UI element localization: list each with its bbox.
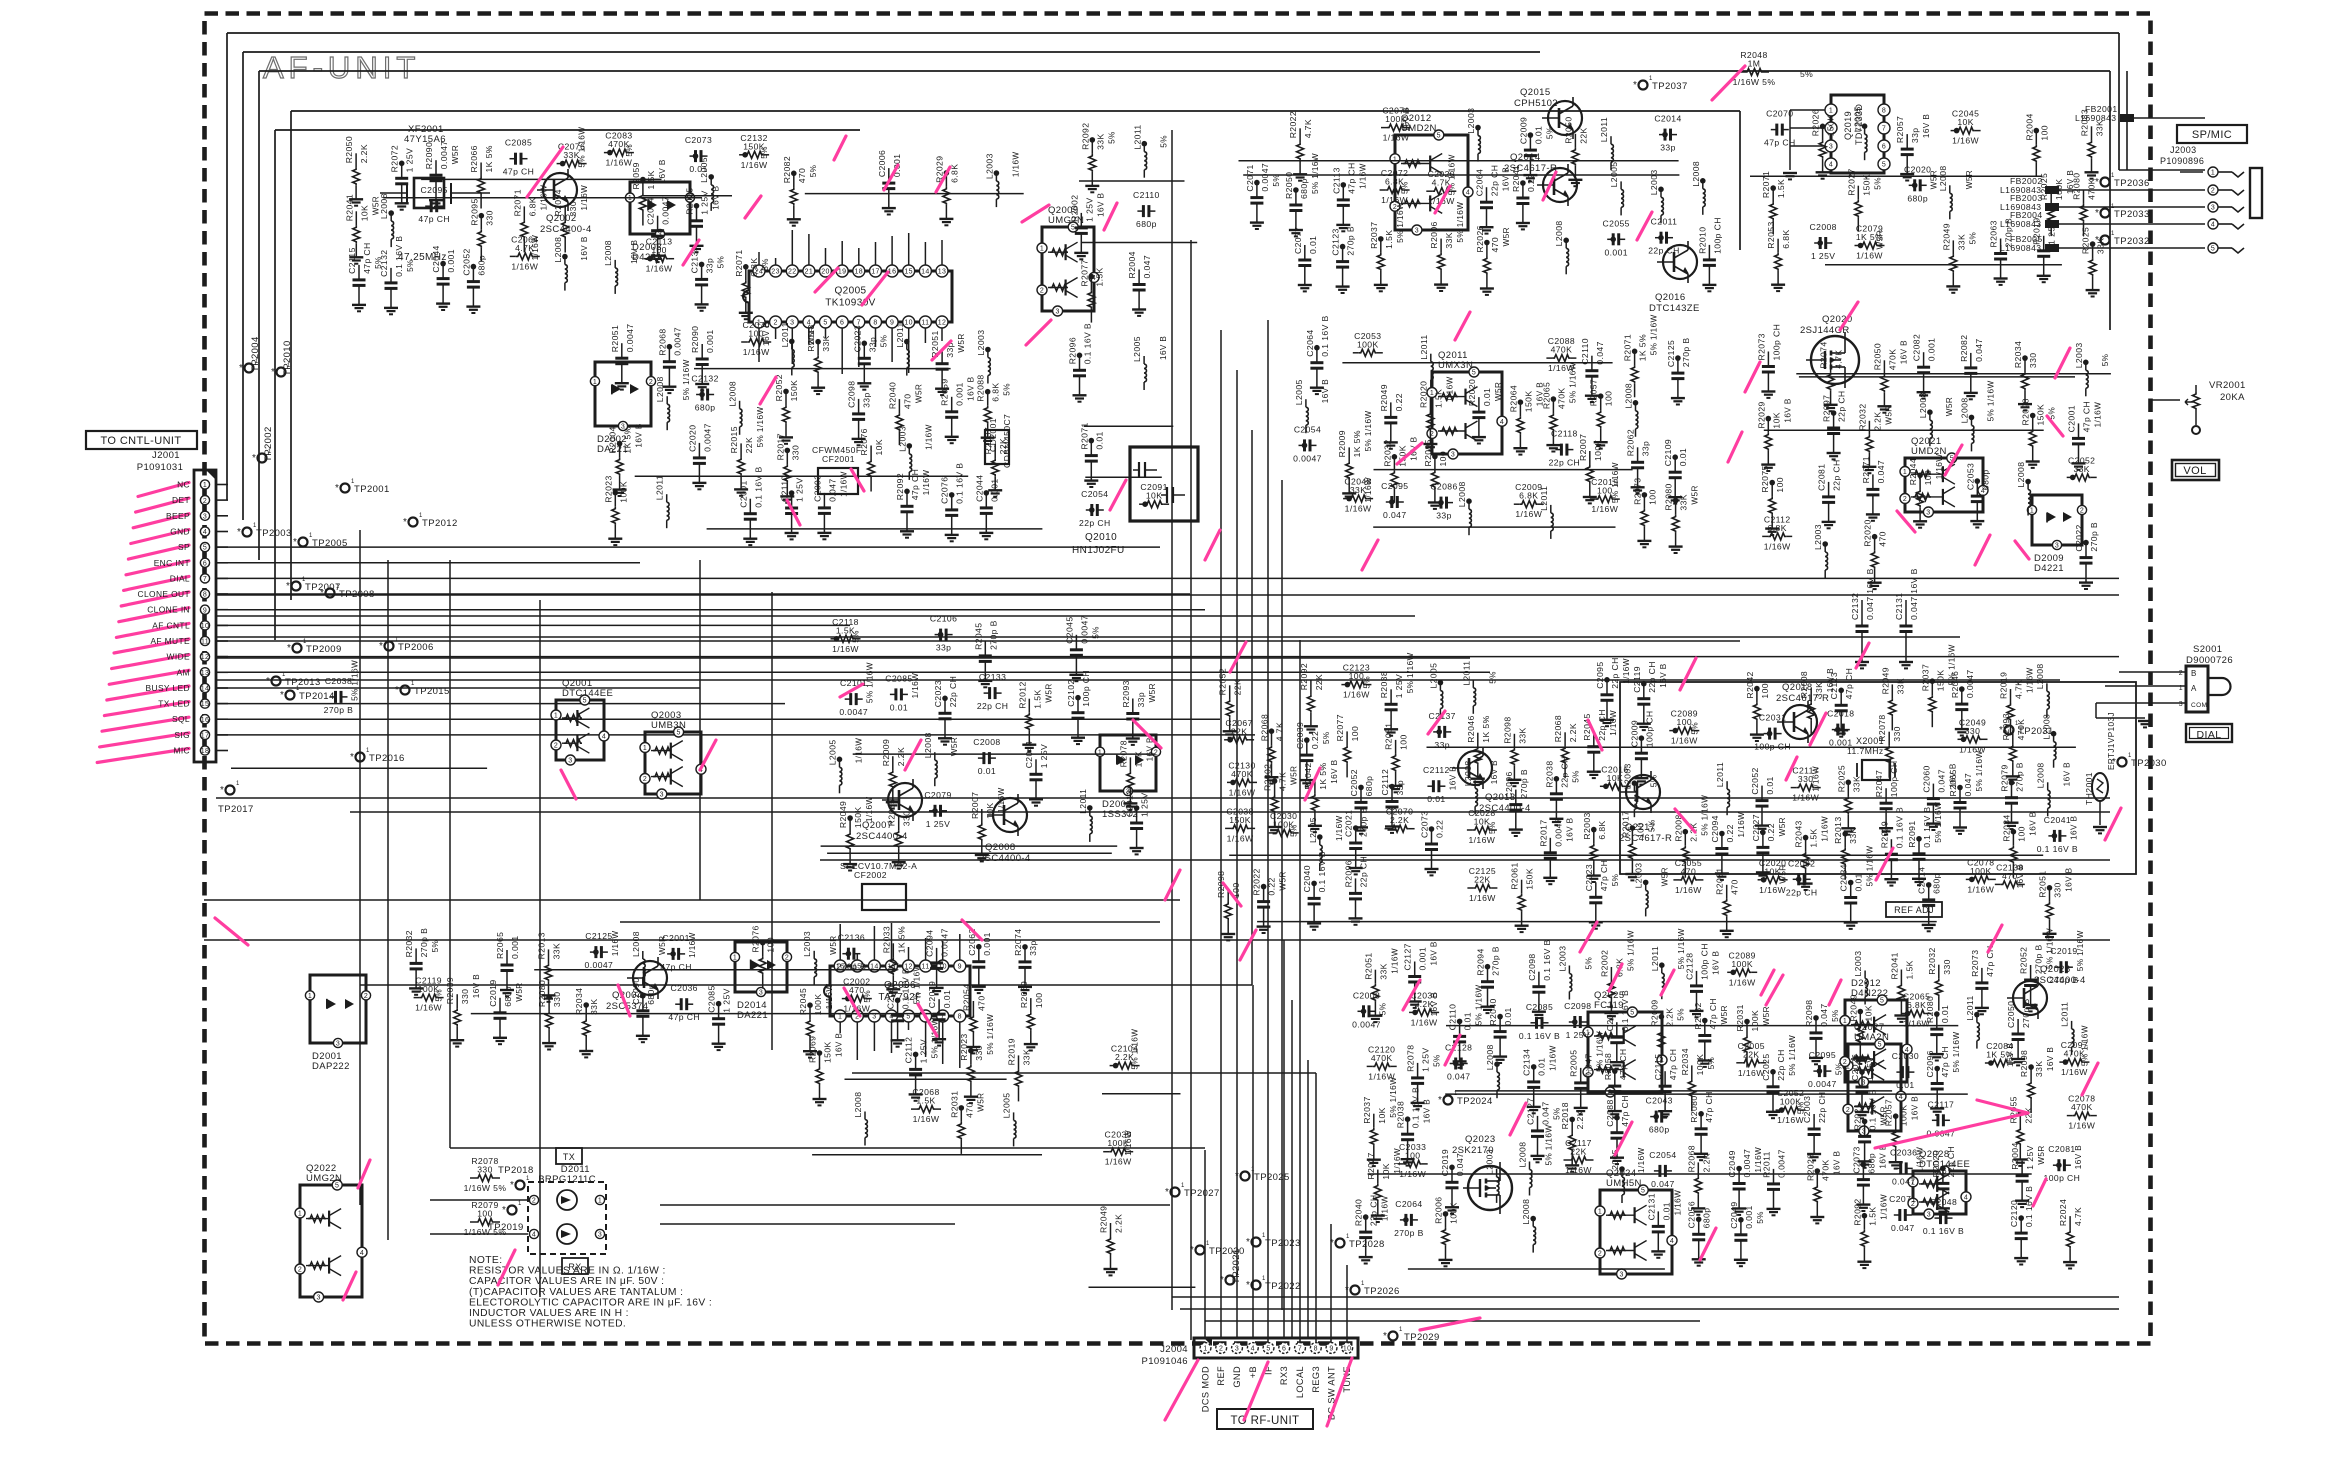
svg-text:0.1 16V B: 0.1 16V B — [1923, 1226, 1964, 1236]
svg-text:8: 8 — [873, 320, 877, 327]
svg-text:R2034: R2034 — [1680, 1048, 1690, 1075]
svg-text:100: 100 — [1775, 477, 1785, 493]
svg-text:C2095: C2095 — [1595, 661, 1605, 688]
svg-text:1: 1 — [1346, 1234, 1350, 1240]
svg-text:9: 9 — [890, 320, 894, 327]
svg-text:16V B: 16V B — [2006, 1043, 2015, 1067]
svg-text:0.01: 0.01 — [890, 702, 908, 712]
svg-text:1: 1 — [308, 993, 312, 1000]
svg-text:R2027: R2027 — [1846, 168, 1856, 195]
svg-text:680p: 680p — [1299, 178, 1309, 199]
svg-text:1 25V: 1 25V — [1421, 1047, 1431, 1071]
svg-text:10K: 10K — [874, 439, 884, 456]
svg-text:R2011: R2011 — [1762, 1151, 1772, 1178]
svg-text:R2092: R2092 — [1852, 1198, 1862, 1225]
svg-text:100p CH: 100p CH — [1889, 760, 1899, 797]
svg-text:1 25V: 1 25V — [722, 988, 732, 1012]
svg-text:R2027: R2027 — [1366, 1152, 1376, 1179]
svg-text:TP2025: TP2025 — [1254, 1172, 1290, 1183]
svg-text:330: 330 — [460, 989, 470, 1005]
svg-text:3: 3 — [598, 1232, 602, 1239]
svg-text:0.01: 0.01 — [1533, 126, 1543, 144]
svg-text:*: * — [510, 1180, 514, 1191]
svg-text:R2038: R2038 — [1396, 1101, 1406, 1128]
svg-text:33p: 33p — [1136, 692, 1146, 708]
svg-text:33K: 33K — [821, 335, 831, 352]
svg-text:1.5K: 1.5K — [646, 170, 656, 189]
svg-text:12: 12 — [938, 320, 947, 327]
svg-text:1: 1 — [298, 1211, 302, 1218]
svg-text:C2013: C2013 — [1125, 790, 1135, 817]
svg-text:22K: 22K — [1743, 1049, 1760, 1059]
svg-text:C2125: C2125 — [1666, 340, 1676, 367]
svg-text:R2023: R2023 — [959, 1033, 969, 1060]
svg-text:5: 5 — [1437, 133, 1441, 140]
svg-text:330: 330 — [1942, 959, 1952, 975]
svg-text:1: 1 — [336, 584, 340, 590]
svg-text:1/16W: 1/16W — [1812, 766, 1821, 792]
svg-text:1.5K: 1.5K — [1809, 828, 1819, 847]
svg-text:0.1 16V B: 0.1 16V B — [753, 466, 763, 507]
svg-text:*: * — [2095, 235, 2099, 246]
svg-text:150K: 150K — [1826, 115, 1836, 137]
svg-text:C2043: C2043 — [1646, 1096, 1673, 1106]
svg-text:5% 1/16W: 5% 1/16W — [578, 127, 587, 168]
svg-text:L2008: L2008 — [923, 732, 933, 758]
svg-text:1/16W: 1/16W — [1777, 1115, 1804, 1125]
svg-text:1K 5%: 1K 5% — [623, 426, 633, 453]
svg-text:5: 5 — [1641, 1188, 1645, 1195]
svg-text:Q2016: Q2016 — [1655, 292, 1686, 303]
svg-text:1: 1 — [1236, 1271, 1240, 1277]
svg-text:C2077: C2077 — [1293, 227, 1303, 254]
svg-text:5%: 5% — [1322, 731, 1331, 744]
svg-text:R2050: R2050 — [1563, 116, 1573, 143]
svg-text:L2005: L2005 — [1609, 161, 1619, 187]
svg-text:1: 1 — [526, 1176, 530, 1182]
svg-text:0.0047: 0.0047 — [1808, 1079, 1837, 1089]
svg-text:1: 1 — [1262, 1276, 1266, 1282]
svg-text:1: 1 — [1040, 246, 1044, 253]
svg-text:1/16W: 1/16W — [1411, 1017, 1438, 1027]
svg-text:TP2009: TP2009 — [306, 644, 342, 655]
svg-text:5%: 5% — [1873, 177, 1882, 190]
svg-text:150K: 150K — [1229, 815, 1251, 825]
svg-text:11: 11 — [921, 320, 929, 327]
svg-text:C2040: C2040 — [1302, 865, 1312, 892]
svg-text:L2011: L2011 — [1715, 762, 1725, 787]
svg-text:1: 1 — [2030, 508, 2034, 515]
svg-text:L2011: L2011 — [1078, 789, 1088, 814]
svg-text:CPH5102: CPH5102 — [1514, 98, 1558, 109]
svg-text:1: 1 — [1399, 1327, 1403, 1333]
svg-text:TP2022: TP2022 — [1265, 1281, 1301, 1292]
svg-text:C2127: C2127 — [1526, 1098, 1536, 1125]
svg-text:10K: 10K — [1863, 1005, 1873, 1022]
svg-text:9: 9 — [1329, 1346, 1333, 1353]
svg-text:W5R: W5R — [515, 982, 524, 1001]
svg-text:R2098: R2098 — [1502, 716, 1512, 743]
svg-text:UNLESS OTHERWISE NOTED.: UNLESS OTHERWISE NOTED. — [469, 1319, 626, 1330]
svg-text:R2046: R2046 — [1466, 715, 1476, 742]
svg-text:1/16W: 1/16W — [1565, 1165, 1592, 1175]
svg-text:0.22: 0.22 — [1267, 877, 1277, 895]
svg-text:1: 1 — [1454, 1091, 1458, 1097]
svg-text:1: 1 — [1598, 1209, 1602, 1216]
svg-text:C2102: C2102 — [1066, 679, 1076, 706]
svg-text:5% 1/16W: 5% 1/16W — [986, 1014, 995, 1055]
svg-text:L2008: L2008 — [2036, 762, 2046, 788]
svg-text:C2064: C2064 — [1475, 169, 1485, 196]
svg-text:1/16W: 1/16W — [913, 1114, 940, 1124]
svg-text:C2086: C2086 — [1430, 482, 1457, 492]
svg-text:0.0047: 0.0047 — [585, 960, 614, 970]
svg-text:*: * — [350, 752, 354, 763]
svg-text:0.0047: 0.0047 — [1079, 615, 1089, 644]
svg-text:R2038: R2038 — [1544, 760, 1554, 787]
svg-text:100p CH: 100p CH — [1081, 670, 1091, 707]
svg-text:*: * — [2112, 757, 2116, 768]
svg-text:C2110: C2110 — [780, 475, 790, 502]
svg-text:4.7K: 4.7K — [1275, 722, 1285, 741]
svg-text:22p CH: 22p CH — [1359, 856, 1369, 888]
svg-text:C2064: C2064 — [1395, 1199, 1422, 1209]
svg-text:C2064: C2064 — [1305, 329, 1315, 356]
svg-text:LOCAL: LOCAL — [1295, 1366, 1305, 1398]
svg-text:0.0047: 0.0047 — [625, 324, 635, 353]
svg-text:R2041: R2041 — [1889, 952, 1899, 979]
svg-text:100p CH: 100p CH — [1712, 217, 1722, 254]
svg-text:C2052: C2052 — [461, 248, 471, 275]
svg-text:+B: +B — [1248, 1366, 1258, 1378]
svg-text:L2003: L2003 — [1622, 763, 1632, 789]
svg-text:5: 5 — [1071, 225, 1075, 232]
svg-text:22K: 22K — [1570, 1147, 1587, 1157]
svg-text:C2112: C2112 — [904, 1037, 914, 1064]
svg-text:3: 3 — [2211, 205, 2215, 212]
svg-text:22p CH: 22p CH — [1776, 1049, 1786, 1081]
svg-text:270p B: 270p B — [1519, 769, 1529, 799]
svg-text:15: 15 — [904, 269, 913, 276]
svg-text:3: 3 — [1927, 1212, 1931, 1219]
svg-text:TP2037: TP2037 — [1652, 81, 1688, 92]
svg-text:5%: 5% — [1488, 671, 1497, 684]
svg-text:1/16W: 1/16W — [1468, 835, 1495, 845]
svg-text:4: 4 — [1964, 1194, 1968, 1201]
svg-text:10K: 10K — [1133, 751, 1143, 768]
svg-text:16V B: 16V B — [1659, 663, 1668, 687]
svg-text:5%: 5% — [717, 256, 726, 269]
svg-text:7: 7 — [203, 576, 207, 583]
svg-text:22p CH: 22p CH — [977, 701, 1009, 711]
svg-text:C2023: C2023 — [933, 680, 943, 707]
svg-text:1: 1 — [518, 1201, 522, 1207]
svg-text:C2070: C2070 — [1766, 109, 1793, 119]
svg-text:330: 330 — [568, 201, 578, 217]
svg-text:P1090896: P1090896 — [2160, 156, 2204, 166]
svg-text:10: 10 — [1343, 1346, 1352, 1353]
svg-text:R2094: R2094 — [553, 189, 563, 216]
svg-text:R2090: R2090 — [424, 142, 434, 169]
svg-text:C2085: C2085 — [505, 138, 532, 148]
svg-text:R2074: R2074 — [1013, 929, 1023, 956]
svg-text:150K: 150K — [853, 806, 863, 828]
svg-text:0.047 16V B: 0.047 16V B — [1865, 568, 1875, 620]
svg-text:470: 470 — [902, 394, 912, 410]
svg-text:R2029: R2029 — [1879, 821, 1889, 848]
svg-text:INDUCTOR VALUES ARE IN H :: INDUCTOR VALUES ARE IN H : — [469, 1308, 629, 1319]
svg-text:1: 1 — [395, 637, 399, 643]
svg-text:5%: 5% — [1379, 1003, 1388, 1016]
svg-text:16V B: 16V B — [630, 239, 639, 263]
svg-text:4.7K: 4.7K — [2073, 1207, 2083, 1226]
svg-text:W5R: W5R — [1720, 1005, 1729, 1024]
svg-text:L2003: L2003 — [802, 931, 812, 957]
svg-text:0.1 16V B: 0.1 16V B — [1922, 806, 1932, 847]
svg-text:1: 1 — [253, 523, 257, 529]
svg-text:150K: 150K — [1525, 868, 1535, 890]
svg-text:R2017: R2017 — [1538, 819, 1548, 846]
svg-text:C2115: C2115 — [1653, 1054, 1663, 1081]
svg-text:R2059: R2059 — [940, 378, 950, 405]
svg-text:2: 2 — [1843, 1059, 1847, 1066]
svg-text:33K: 33K — [1378, 963, 1388, 980]
svg-text:1: 1 — [1098, 749, 1102, 756]
svg-text:7: 7 — [1882, 126, 1886, 133]
svg-text:TP2019: TP2019 — [488, 1222, 524, 1233]
svg-text:DIAL: DIAL — [2197, 729, 2222, 741]
svg-text:C2020: C2020 — [1904, 164, 1931, 174]
svg-text:R2032: R2032 — [1857, 403, 1867, 430]
svg-text:5% 1/16W: 5% 1/16W — [1700, 795, 1709, 836]
svg-text:R2037: R2037 — [1362, 1096, 1372, 1123]
svg-text:470K: 470K — [1371, 1053, 1393, 1063]
svg-text:1: 1 — [1206, 1241, 1210, 1247]
svg-text:GND: GND — [1232, 1366, 1242, 1388]
svg-text:1: 1 — [733, 955, 737, 962]
svg-text:C2123: C2123 — [1829, 672, 1839, 699]
svg-text:L2003: L2003 — [976, 330, 986, 356]
svg-text:R2025: R2025 — [1836, 765, 1846, 792]
svg-text:17: 17 — [871, 269, 880, 276]
svg-text:0.0047: 0.0047 — [1965, 669, 1975, 698]
svg-text:C2090: C2090 — [631, 977, 641, 1004]
svg-text:DA221: DA221 — [737, 1010, 768, 1021]
svg-text:0.1 16V B: 0.1 16V B — [1083, 323, 1093, 364]
svg-text:13: 13 — [938, 269, 947, 276]
svg-text:1/16W: 1/16W — [1609, 710, 1618, 736]
svg-text:R2077: R2077 — [1335, 714, 1345, 741]
svg-text:3: 3 — [790, 320, 794, 327]
svg-text:330: 330 — [2053, 882, 2063, 898]
svg-text:R2064: R2064 — [1508, 385, 1518, 412]
svg-text:0.001: 0.001 — [1418, 947, 1428, 971]
svg-text:R2061: R2061 — [1510, 862, 1520, 889]
svg-text:*: * — [1345, 1285, 1349, 1296]
svg-text:1/16W: 1/16W — [688, 932, 697, 958]
svg-text:L2011: L2011 — [655, 475, 665, 500]
svg-text:3: 3 — [1055, 309, 1059, 316]
svg-text:5%: 5% — [852, 630, 861, 643]
svg-text:W5R: W5R — [1148, 683, 1157, 702]
svg-text:2.2K: 2.2K — [1701, 1153, 1711, 1172]
svg-text:0.1 16V B: 0.1 16V B — [1411, 1087, 1421, 1128]
svg-text:33K: 33K — [1679, 494, 1689, 511]
svg-text:5% 1/16W: 5% 1/16W — [351, 660, 360, 701]
svg-text:0.0047: 0.0047 — [1352, 1019, 1381, 1029]
svg-text:C2036: C2036 — [1890, 1147, 1917, 1157]
svg-text:4.7K: 4.7K — [1303, 119, 1313, 138]
svg-text:100K: 100K — [1449, 1202, 1459, 1224]
svg-text:R2029: R2029 — [1756, 401, 1766, 428]
svg-text:0.1 16V B: 0.1 16V B — [1894, 807, 1904, 848]
svg-text:470: 470 — [1730, 879, 1740, 895]
svg-text:1: 1 — [1843, 1018, 1847, 1025]
svg-text:L2008: L2008 — [2035, 663, 2045, 689]
svg-text:C2117: C2117 — [1928, 1099, 1955, 1109]
svg-text:1/16W: 1/16W — [1345, 504, 1372, 514]
svg-text:0.0047: 0.0047 — [940, 928, 950, 957]
svg-text:100: 100 — [1760, 683, 1770, 699]
svg-text:Q2005: Q2005 — [834, 286, 866, 297]
svg-text:C2127: C2127 — [1403, 943, 1413, 970]
svg-text:R2078: R2078 — [1406, 1045, 1416, 1072]
svg-text:16V B: 16V B — [1159, 336, 1168, 360]
svg-text:C2022: C2022 — [2074, 524, 2084, 551]
svg-text:0.001: 0.001 — [955, 382, 965, 406]
svg-text:L2011: L2011 — [1650, 946, 1660, 971]
svg-text:2.2K: 2.2K — [1114, 1214, 1124, 1233]
svg-text:16V B: 16V B — [2028, 811, 2037, 835]
svg-text:33K: 33K — [1851, 776, 1861, 793]
svg-text:5% 1/16W: 5% 1/16W — [1475, 984, 1484, 1025]
svg-text:R2003: R2003 — [1582, 812, 1592, 839]
svg-text:R2035: R2035 — [887, 799, 897, 826]
svg-text:R2071: R2071 — [1861, 456, 1871, 483]
svg-text:100: 100 — [1034, 993, 1044, 1009]
svg-text:*: * — [286, 581, 290, 592]
svg-text:0.001: 0.001 — [1927, 338, 1937, 362]
svg-text:5: 5 — [1880, 998, 1884, 1005]
svg-text:5% 1/16W: 5% 1/16W — [2076, 930, 2085, 971]
svg-text:C2006: C2006 — [877, 150, 887, 177]
svg-text:R2080: R2080 — [1664, 483, 1674, 510]
svg-text:0.22: 0.22 — [1725, 824, 1735, 842]
svg-text:33p: 33p — [936, 643, 952, 653]
svg-text:4: 4 — [1251, 1346, 1255, 1353]
svg-text:R2046: R2046 — [1950, 671, 1960, 698]
svg-text:2.2K: 2.2K — [1664, 1007, 1674, 1026]
svg-text:0.22: 0.22 — [1310, 731, 1320, 749]
svg-text:16V B: 16V B — [1448, 766, 1457, 790]
svg-text:1: 1 — [2111, 173, 2115, 179]
svg-text:R2004: R2004 — [2024, 113, 2034, 140]
svg-text:14: 14 — [921, 269, 930, 276]
svg-text:1: 1 — [419, 513, 423, 519]
svg-text:W5R: W5R — [1778, 817, 1787, 836]
svg-text:4: 4 — [1899, 1094, 1903, 1101]
svg-text:R2044: R2044 — [1908, 458, 1918, 485]
svg-text:0.01: 0.01 — [1427, 794, 1445, 804]
svg-text:TO RF-UNIT: TO RF-UNIT — [1231, 1415, 1300, 1427]
svg-text:R2092: R2092 — [1299, 663, 1309, 690]
svg-text:470: 470 — [1490, 237, 1500, 253]
svg-text:2: 2 — [554, 743, 558, 750]
svg-text:C2019: C2019 — [2050, 946, 2077, 956]
svg-text:270p B: 270p B — [2034, 944, 2044, 974]
svg-text:1: 1 — [2211, 170, 2215, 177]
svg-text:1/16W: 1/16W — [1967, 884, 1994, 894]
svg-text:270p B: 270p B — [1491, 946, 1501, 976]
svg-text:22p CH: 22p CH — [1490, 165, 1500, 197]
svg-text:16V B: 16V B — [580, 236, 589, 260]
svg-text:0.0047: 0.0047 — [702, 423, 712, 452]
svg-text:R2092: R2092 — [1080, 123, 1090, 150]
svg-text:L2011: L2011 — [1539, 486, 1549, 511]
svg-text:C2110: C2110 — [1133, 190, 1160, 200]
svg-text:*: * — [271, 367, 275, 378]
svg-text:C2112: C2112 — [1423, 765, 1450, 775]
svg-text:R2006: R2006 — [1429, 221, 1439, 248]
svg-text:1: 1 — [1181, 1183, 1185, 1189]
svg-text:1 25V: 1 25V — [2025, 1145, 2035, 1169]
svg-text:1/16W 5%: 1/16W 5% — [464, 1183, 507, 1193]
svg-text:2: 2 — [785, 955, 789, 962]
svg-text:AF-UNIT: AF-UNIT — [263, 50, 420, 85]
svg-text:C2053: C2053 — [1965, 463, 1975, 490]
svg-text:L2011: L2011 — [780, 322, 790, 347]
svg-text:5% 1/16W: 5% 1/16W — [1788, 1035, 1797, 1076]
svg-text:19: 19 — [838, 269, 847, 276]
svg-text:R2022: R2022 — [1288, 111, 1298, 138]
svg-text:1/16W: 1/16W — [825, 984, 834, 1010]
svg-text:3: 3 — [568, 758, 572, 765]
svg-text:C2052: C2052 — [1750, 767, 1760, 794]
svg-text:2: 2 — [2211, 188, 2215, 195]
svg-text:R2040: R2040 — [1488, 998, 1498, 1025]
svg-text:15: 15 — [201, 701, 210, 708]
svg-text:0.047: 0.047 — [1891, 1223, 1915, 1233]
svg-text:3: 3 — [1926, 510, 1930, 517]
svg-text:R2098: R2098 — [1804, 1000, 1814, 1027]
svg-text:R2010: R2010 — [1697, 227, 1707, 254]
svg-text:33p: 33p — [867, 337, 877, 353]
svg-text:C2009: C2009 — [1629, 720, 1639, 747]
svg-text:R2049: R2049 — [838, 801, 848, 828]
svg-text:1 25V: 1 25V — [1039, 744, 1049, 768]
svg-text:0.047: 0.047 — [1455, 1153, 1465, 1177]
svg-text:D9000726: D9000726 — [2186, 655, 2233, 666]
svg-text:5% 1/16W: 5% 1/16W — [1545, 1125, 1554, 1166]
svg-text:W5R: W5R — [1945, 397, 1954, 416]
svg-text:100K: 100K — [1695, 1054, 1705, 1076]
svg-text:*: * — [266, 676, 270, 687]
svg-text:C2001: C2001 — [2067, 405, 2077, 432]
svg-text:100p CH: 100p CH — [1754, 742, 1791, 752]
svg-text:3: 3 — [872, 1014, 876, 1021]
svg-text:TP2029: TP2029 — [1404, 1332, 1440, 1343]
svg-text:R2031: R2031 — [1735, 1004, 1745, 1031]
svg-text:R2082: R2082 — [1959, 335, 1969, 362]
svg-text:W5R: W5R — [1279, 871, 1288, 890]
svg-text:R2051: R2051 — [1363, 952, 1373, 979]
svg-text:C2008: C2008 — [1810, 222, 1837, 232]
svg-text:22K: 22K — [1233, 679, 1243, 696]
svg-text:0.1 16V B: 0.1 16V B — [955, 463, 965, 504]
svg-text:270p B: 270p B — [419, 928, 429, 958]
svg-text:L2008: L2008 — [2016, 462, 2026, 488]
svg-text:*: * — [1246, 1280, 1250, 1291]
